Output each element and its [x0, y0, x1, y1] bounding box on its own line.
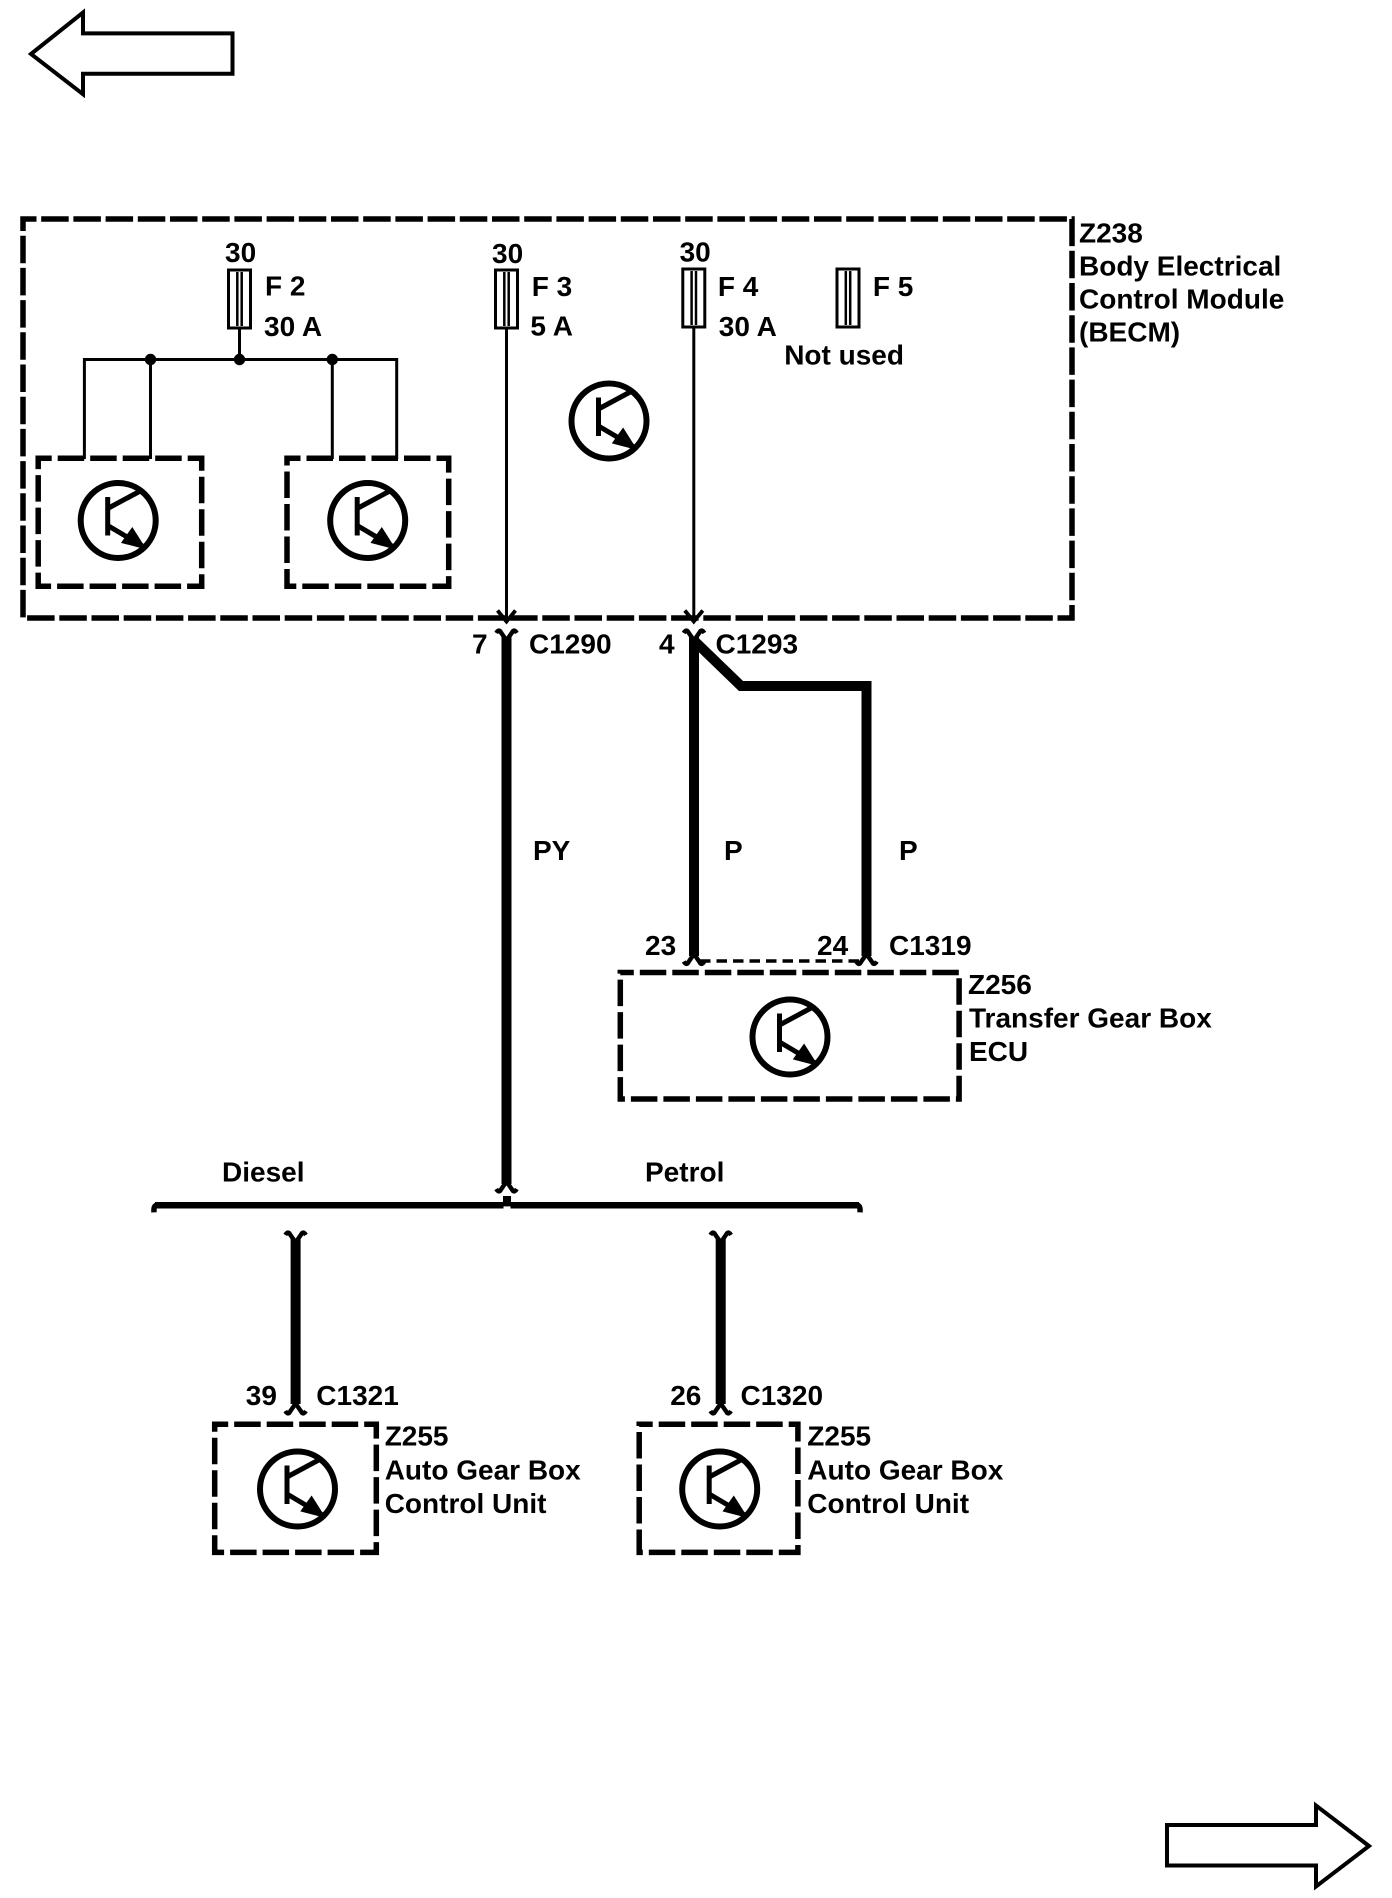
svg-text:Z238: Z238 — [1079, 217, 1143, 248]
junction node dot 2 — [234, 354, 245, 365]
svg-text:Petrol: Petrol — [645, 1157, 724, 1188]
wire P branch left — [689, 637, 699, 956]
svg-text:Transfer Gear Box: Transfer Gear Box — [969, 1003, 1212, 1034]
fuse F5 — [837, 269, 859, 327]
svg-text:23: 23 — [645, 930, 676, 961]
wire F2 to junction bus — [238, 328, 241, 360]
svg-text:30 A: 30 A — [264, 311, 322, 342]
svg-text:C1293: C1293 — [716, 629, 799, 660]
svg-text:F 4: F 4 — [718, 271, 759, 302]
svg-text:24: 24 — [817, 930, 849, 961]
svg-text:30: 30 — [225, 237, 256, 268]
transistor in Z255 right — [682, 1452, 757, 1527]
transistor in BECM — [572, 384, 647, 459]
svg-text:4: 4 — [659, 629, 675, 660]
svg-text:Z255: Z255 — [385, 1421, 449, 1452]
svg-text:F 2: F 2 — [265, 271, 305, 302]
svg-text:Auto Gear Box: Auto Gear Box — [385, 1455, 581, 1486]
transistor in relay box 2 — [330, 483, 405, 558]
svg-text:Z256: Z256 — [968, 969, 1032, 1000]
transistor in Z255 left — [260, 1452, 335, 1527]
junction node dot 3 — [327, 354, 338, 365]
svg-text:5 A: 5 A — [530, 311, 573, 342]
junction node dot 1 — [145, 354, 156, 365]
connector C1319 pin 24 — [856, 954, 877, 964]
svg-text:Body Electrical: Body Electrical — [1079, 250, 1281, 281]
BECM module box Z238 — [23, 219, 1072, 618]
svg-text:C1321: C1321 — [316, 1380, 399, 1411]
svg-text:30: 30 — [680, 237, 711, 268]
svg-text:PY: PY — [533, 835, 571, 866]
svg-text:ECU: ECU — [969, 1036, 1028, 1067]
connector C1319 pin 23 — [684, 954, 705, 964]
svg-text:Control Unit: Control Unit — [385, 1488, 547, 1519]
bus end hook right — [856, 1205, 860, 1213]
svg-text:7: 7 — [472, 629, 488, 660]
bus line Diesel/Petrol — [155, 1202, 859, 1209]
relay sub-box 2 — [287, 458, 449, 586]
gearbox box Z255 left — [215, 1424, 377, 1552]
wire PY — [502, 637, 512, 1184]
svg-text:Not used: Not used — [784, 340, 904, 371]
relay sub-box 1 — [38, 458, 202, 586]
svg-text:Z255: Z255 — [807, 1421, 871, 1452]
svg-text:F 3: F 3 — [532, 271, 572, 302]
wire drop to relay 2 — [331, 360, 334, 460]
bus notch at PY node — [504, 1206, 511, 1208]
gearbox box Z255 right — [639, 1424, 798, 1552]
wire F3 to C1290 — [505, 328, 508, 622]
svg-text:39: 39 — [246, 1380, 277, 1411]
wire Diesel drop — [285, 1233, 306, 1243]
wire P branch right — [696, 642, 867, 956]
svg-text:C1290: C1290 — [529, 629, 612, 660]
wire F4 to C1293 — [692, 327, 695, 622]
fuse F3 — [496, 270, 518, 328]
node nub on bus — [503, 1196, 511, 1203]
svg-text:Auto Gear Box: Auto Gear Box — [807, 1455, 1003, 1486]
ECU box Z256 — [620, 973, 959, 1100]
connector C1290 pin 7 — [496, 631, 517, 641]
svg-text:Diesel: Diesel — [222, 1157, 305, 1188]
svg-text:C1319: C1319 — [889, 930, 972, 961]
page-nav arrow left — [31, 13, 233, 95]
wire Petrol drop — [710, 1233, 731, 1243]
fuse F4 — [683, 269, 705, 327]
svg-text:P: P — [724, 835, 743, 866]
svg-text:F 5: F 5 — [873, 271, 913, 302]
page-nav arrow right — [1167, 1806, 1369, 1887]
transistor in relay box 1 — [81, 483, 156, 558]
svg-text:Control Module: Control Module — [1079, 283, 1284, 314]
svg-text:30: 30 — [492, 238, 523, 269]
svg-text:Control Unit: Control Unit — [807, 1488, 969, 1519]
svg-text:26: 26 — [670, 1380, 701, 1411]
bus end hook left — [154, 1205, 158, 1213]
wire junction bus horizontal — [84, 360, 396, 460]
svg-text:P: P — [899, 835, 918, 866]
connector C1319 housing dashes — [700, 959, 860, 962]
wire drop to relay 1 — [149, 360, 152, 460]
svg-text:30 A: 30 A — [719, 311, 777, 342]
svg-text:C1320: C1320 — [741, 1380, 824, 1411]
fuse F2 — [229, 270, 251, 328]
transistor in Z256 — [753, 1000, 828, 1075]
svg-text:(BECM): (BECM) — [1079, 316, 1180, 347]
connector C1293 pin 4 — [684, 631, 705, 641]
